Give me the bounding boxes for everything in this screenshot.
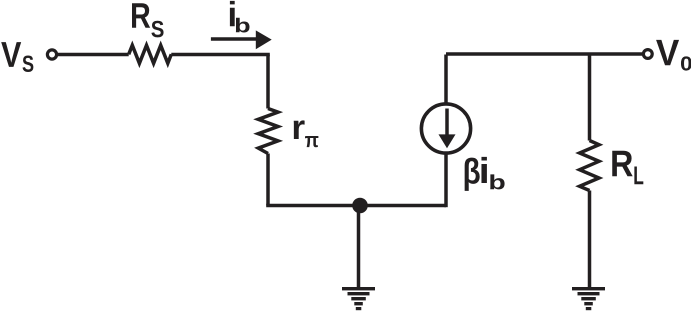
resistor RL [580,141,599,191]
ground (middle) [342,287,375,310]
current arrow ib [211,30,272,49]
label beta-ib [465,157,505,191]
wire current source bottom down and to node [444,152,448,207]
label V0 [656,40,691,71]
wire RS to corner [171,53,269,57]
label r_pi [294,120,319,147]
ground (right) [572,287,605,310]
wire rail down to RL [588,54,592,141]
wire VS terminal to RS [57,53,128,57]
wire node down to ground [357,206,361,289]
terminal V0 (output open circle) [643,50,652,59]
wire bottom rail [266,204,446,208]
node junction dot [352,198,368,214]
label VS [1,42,33,72]
resistor r_pi [258,109,278,154]
wire top of current source up to rail [444,55,448,106]
label RL [612,151,643,184]
controlled current source circle [421,104,470,153]
terminal VS (input open circle) [47,50,56,59]
wire corner down to r_pi [266,55,270,109]
label RS [132,3,164,37]
wire top rail to V0 [446,52,643,56]
label ib [230,1,250,33]
resistor RS [129,45,172,63]
wire RL down to ground [588,191,592,289]
current source arrow (downward) [439,109,456,149]
wire r_pi down to bottom rail [266,154,270,206]
